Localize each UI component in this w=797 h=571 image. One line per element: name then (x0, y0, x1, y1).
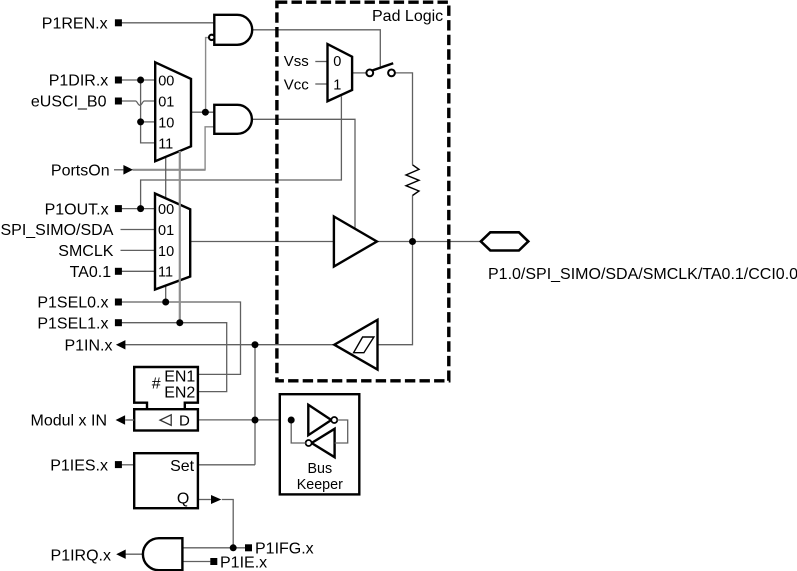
svg-text:10: 10 (158, 115, 174, 131)
svg-text:P1IES.x: P1IES.x (50, 458, 108, 475)
svg-text:Set: Set (170, 458, 195, 475)
svg-text:0: 0 (333, 54, 341, 70)
svg-text:P1DIR.x: P1DIR.x (49, 73, 109, 90)
svg-text:P1OUT.x: P1OUT.x (45, 201, 109, 218)
svg-text:SPI_SIMO/SDA: SPI_SIMO/SDA (0, 222, 113, 239)
svg-text:00: 00 (158, 202, 174, 218)
svg-text:Pad Logic: Pad Logic (372, 8, 443, 25)
svg-text:Q: Q (177, 491, 189, 508)
svg-text:1: 1 (333, 78, 341, 94)
svg-text:00: 00 (158, 74, 174, 90)
svg-text:SMCLK: SMCLK (58, 243, 113, 260)
svg-text:Bus: Bus (307, 461, 332, 477)
svg-text:EN1: EN1 (164, 369, 195, 386)
svg-text:P1.0/SPI_SIMO/SDA/SMCLK/TA0.1/: P1.0/SPI_SIMO/SDA/SMCLK/TA0.1/CCI0.0 (488, 266, 797, 283)
svg-text:01: 01 (158, 223, 174, 239)
svg-text:P1SEL0.x: P1SEL0.x (37, 295, 108, 312)
svg-text:TA0.1: TA0.1 (70, 264, 112, 281)
svg-text:P1REN.x: P1REN.x (42, 16, 108, 33)
svg-text:10: 10 (158, 244, 174, 260)
svg-text:P1IRQ.x: P1IRQ.x (51, 548, 111, 565)
svg-text:eUSCI_B0: eUSCI_B0 (31, 94, 107, 111)
svg-text:D: D (179, 412, 190, 429)
svg-text:Vcc: Vcc (284, 77, 310, 94)
svg-text:P1IE.x: P1IE.x (220, 555, 267, 571)
svg-text:11: 11 (158, 136, 173, 152)
svg-text:Modul x IN: Modul x IN (31, 413, 107, 430)
svg-text:P1IN.x: P1IN.x (64, 337, 112, 354)
svg-text:#: # (152, 376, 161, 393)
svg-text:11: 11 (158, 265, 173, 281)
svg-text:Keeper: Keeper (297, 477, 343, 493)
svg-text:Vss: Vss (284, 53, 309, 70)
svg-text:P1SEL1.x: P1SEL1.x (37, 315, 108, 332)
svg-text:EN2: EN2 (164, 384, 195, 401)
svg-text:PortsOn: PortsOn (51, 163, 110, 180)
svg-text:01: 01 (158, 95, 174, 111)
